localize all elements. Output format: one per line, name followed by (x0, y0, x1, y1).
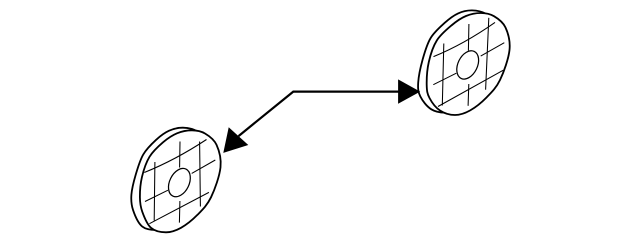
right disc face (427, 13, 510, 115)
left disc rim (131, 128, 212, 230)
right disc hole (452, 47, 483, 82)
left disc face (140, 130, 221, 232)
right disc grid (433, 18, 504, 107)
right disc rim (418, 10, 501, 112)
arrowhead left (223, 127, 248, 153)
left disc hole (164, 165, 195, 200)
left disc grid (144, 140, 215, 224)
arrowhead right (398, 79, 420, 103)
arrow shaft (239, 92, 401, 137)
